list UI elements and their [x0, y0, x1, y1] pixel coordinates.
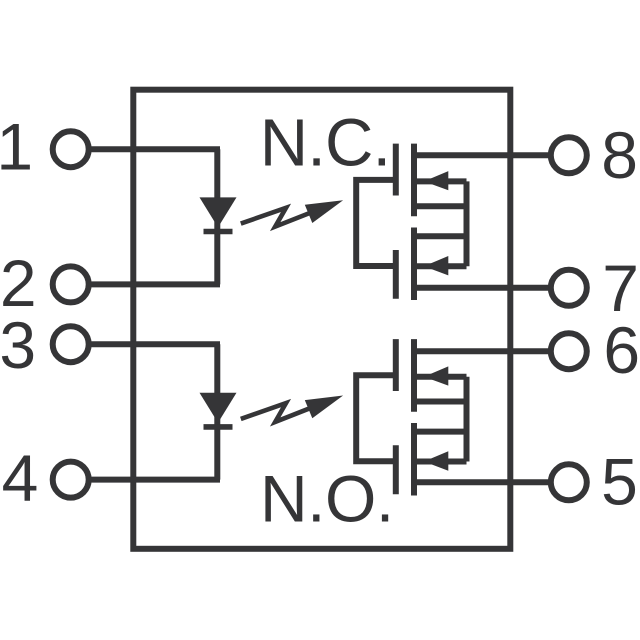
wire pin4 to LED2 cathode — [91, 477, 220, 483]
channel bar Q1B — [411, 228, 417, 301]
gate plate Q1A — [393, 144, 399, 196]
light arrow 1 (LED1 to Q1) — [241, 200, 343, 226]
svg-text:5: 5 — [601, 445, 638, 519]
pin 4 terminal circle — [53, 462, 89, 498]
svg-text:3: 3 — [0, 308, 36, 382]
pin 6 terminal circle — [551, 333, 587, 369]
LED1 D1 triangle — [200, 197, 237, 227]
body diode arrow Q1B — [424, 256, 448, 275]
svg-text:1: 1 — [0, 109, 33, 183]
wire LED1 vertical branch — [214, 149, 220, 284]
pin 1 terminal circle — [53, 131, 89, 167]
common source-body vertical Q1 — [464, 181, 470, 266]
wire pin3 to LED2 anode — [91, 341, 220, 347]
pin 7 terminal circle — [551, 270, 587, 306]
svg-text:N.C.: N.C. — [260, 105, 390, 180]
wire pin2 to LED1 cathode — [91, 281, 220, 287]
light arrow 2 (LED2 to Q2) — [241, 396, 343, 422]
wire LED2 vertical branch — [214, 344, 220, 479]
body line Q2A — [416, 374, 467, 380]
channel bar Q2B — [411, 423, 417, 496]
svg-text:8: 8 — [601, 118, 638, 192]
LED2 D2 triangle — [200, 393, 237, 423]
gate plate Q1B — [393, 250, 399, 299]
source line Q2B — [416, 429, 467, 435]
gate plate Q2A — [393, 339, 399, 391]
wire drain Q2A to pin 6 — [413, 348, 549, 354]
gate bracket U1A (common gate of Q1A/Q1B) — [356, 180, 396, 266]
pin 3 terminal circle — [53, 326, 89, 362]
wire drain Q1A to pin 8 — [413, 152, 549, 158]
wire drain Q1B to pin 7 — [413, 285, 549, 291]
body diode arrow Q2A — [424, 366, 448, 385]
channel bar Q2A — [411, 339, 417, 412]
svg-text:4: 4 — [2, 441, 39, 515]
svg-text:6: 6 — [603, 313, 640, 387]
pin 5 terminal circle — [551, 464, 587, 500]
source line Q1A — [416, 203, 467, 209]
common source-body vertical Q2 — [464, 377, 470, 462]
body diode arrow Q1A — [424, 171, 448, 190]
body line Q1A — [416, 178, 467, 184]
pin 2 terminal circle — [53, 266, 89, 302]
wire drain Q2B to pin 5 — [413, 479, 549, 485]
source line Q2A — [416, 399, 467, 405]
body line Q1B — [416, 263, 467, 269]
channel bar Q1A — [411, 144, 417, 217]
source line Q1B — [416, 233, 467, 239]
gate bracket U1B (common gate of Q2A/Q2B) — [356, 375, 396, 461]
pin 8 terminal circle — [551, 137, 587, 173]
IC body outline U1 — [133, 90, 510, 549]
LED2 cathode bar — [204, 424, 233, 430]
svg-text:N.O.: N.O. — [260, 462, 394, 536]
gate plate Q2B — [393, 445, 399, 494]
wire pin1 to LED1 anode — [91, 146, 220, 152]
body diode arrow Q2B — [424, 451, 448, 471]
LED1 cathode bar — [204, 229, 233, 235]
body line Q2B — [416, 459, 467, 465]
